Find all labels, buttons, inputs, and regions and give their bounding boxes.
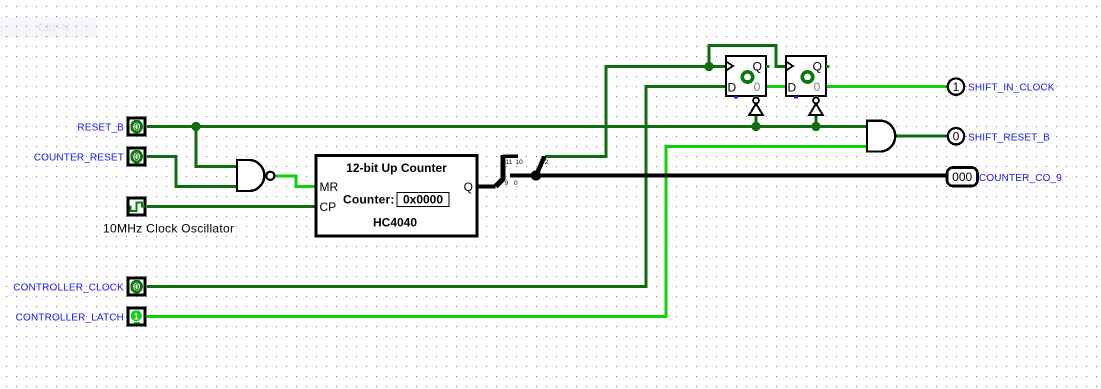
- input pin CONTROLLER_CLOCK: [128, 278, 145, 295]
- svg-text:0x0000: 0x0000: [403, 193, 443, 207]
- svg-text:0: 0: [814, 80, 821, 94]
- D flip-flop FF2: [786, 56, 830, 98]
- wire CONTROLLER_LATCH to AND lower input: [147, 147, 867, 317]
- svg-text:HC4040: HC4040: [373, 216, 417, 230]
- splitter S1: [496, 155, 524, 187]
- wire FF2 Qn to SHIFT_IN_CLOCK: [826, 85, 948, 88]
- output pin SHIFT_RESET_B: [948, 128, 964, 144]
- svg-text:0: 0: [754, 80, 761, 94]
- svg-text:D: D: [788, 80, 797, 94]
- svg-text:Counter:: Counter:: [343, 193, 395, 207]
- svg-text:Q: Q: [464, 180, 473, 194]
- wire FF1 Qn to FF2 D: [766, 85, 786, 88]
- svg-text:0: 0: [953, 130, 960, 144]
- svg-text:2: 2: [545, 159, 549, 166]
- svg-text:CP: CP: [320, 200, 337, 214]
- wire FF clock branch over top: [709, 46, 786, 67]
- svg-text:10MHz Clock Oscillator: 10MHz Clock Oscillator: [103, 222, 234, 236]
- input pin RESET_B: [128, 118, 145, 135]
- node junction bus: [531, 170, 541, 180]
- svg-text:11: 11: [506, 159, 513, 166]
- wire clock CP: [147, 205, 316, 208]
- output pin COUNTER_CO_9: [947, 168, 978, 187]
- wire COUNTER_RESET to NAND lower input: [147, 157, 237, 187]
- svg-text:COUNTER_CO_9: COUNTER_CO_9: [979, 173, 1062, 184]
- wire inverter2 stub: [815, 115, 818, 127]
- node junction inverter2: [811, 122, 820, 131]
- input pin COUNTER_RESET: [128, 148, 145, 165]
- bus bits 9-0 to COUNTER_CO_9: [510, 174, 948, 178]
- bus counter Q output: [477, 185, 496, 189]
- inverter under FF1: [749, 98, 762, 115]
- input pin CONTROLLER_LATCH: [128, 308, 145, 325]
- svg-text:SHIFT_IN_CLOCK: SHIFT_IN_CLOCK: [968, 83, 1055, 94]
- output pin SHIFT_IN_CLOCK: [948, 78, 964, 94]
- wire RESET_B to NAND upper input: [196, 127, 237, 167]
- node junction inverter1: [751, 122, 760, 131]
- wire CONTROLLER_CLOCK to FF1 D: [147, 87, 726, 287]
- wire RESET_B row: [147, 125, 867, 128]
- svg-text:12-bit Up Counter: 12-bit Up Counter: [346, 161, 447, 175]
- svg-text:CONTROLLER_CLOCK: CONTROLLER_CLOCK: [13, 283, 124, 294]
- splitter S2: [536, 156, 549, 176]
- svg-text:Q: Q: [813, 60, 822, 74]
- NAND gate U1: [237, 160, 274, 191]
- clock source: [128, 198, 145, 215]
- svg-text:CONTROLLER_LATCH: CONTROLLER_LATCH: [16, 313, 124, 324]
- svg-text:0: 0: [514, 180, 518, 187]
- wire AND output: [897, 135, 948, 138]
- svg-text:D: D: [728, 80, 737, 94]
- AND gate U3: [867, 121, 895, 152]
- inverter under FF2: [809, 98, 822, 115]
- wire inverter1 stub: [755, 115, 758, 127]
- wire NAND output to MR: [275, 176, 317, 187]
- svg-text:10: 10: [516, 159, 524, 166]
- svg-text:9: 9: [505, 180, 509, 187]
- svg-text:COUNTER_RESET: COUNTER_RESET: [34, 153, 124, 164]
- svg-text:MR: MR: [320, 180, 339, 194]
- wire splitter bit2 to FF clocks: [545, 67, 726, 157]
- counter U2 HC4040: [316, 156, 477, 237]
- svg-text:000: 000: [952, 170, 972, 184]
- svg-text:RESET_B: RESET_B: [77, 123, 124, 134]
- node junction RESET_B: [191, 122, 200, 131]
- svg-text:SHIFT_RESET_B: SHIFT_RESET_B: [968, 132, 1050, 143]
- svg-text:1: 1: [953, 80, 960, 94]
- node junction FF clock: [704, 62, 713, 71]
- svg-text:Q: Q: [753, 60, 762, 74]
- D flip-flop FF1: [726, 56, 770, 98]
- svg-text:1: 1: [134, 312, 139, 322]
